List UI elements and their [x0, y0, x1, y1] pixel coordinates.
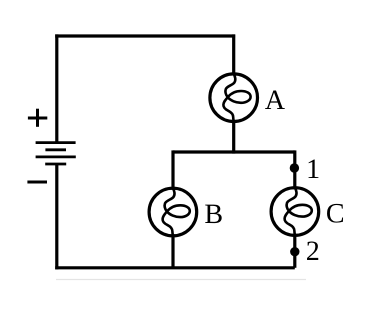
lamp C circle: [271, 188, 319, 236]
wire lamp C top lead: [293, 150, 296, 189]
lamp A filament: [223, 74, 250, 122]
battery B1 plate long top: [36, 141, 76, 144]
battery + label: [28, 109, 47, 127]
wire top horizontal: [55, 34, 235, 37]
lamp A label: [265, 91, 285, 109]
wire junction horizontal: [173, 150, 295, 153]
lamp C label: [327, 204, 343, 223]
node 2 label: [307, 241, 318, 260]
node 1 junction dot: [290, 163, 299, 172]
wire lamp C bottom lead: [293, 234, 296, 268]
faint rule artifact: [56, 279, 306, 281]
battery - label: [27, 181, 47, 184]
lamp B circle: [149, 188, 197, 236]
lamp C filament: [285, 188, 312, 236]
wire left vertical lower: [55, 164, 58, 269]
wire left vertical upper: [55, 34, 58, 142]
node 2 junction dot: [290, 247, 299, 256]
node 1 label: [309, 160, 319, 178]
wire bottom horizontal: [55, 266, 295, 269]
wire lamp A top lead: [232, 34, 235, 75]
wire lamp A bottom lead: [232, 120, 235, 154]
lamp A circle: [210, 74, 258, 122]
wire lamp B bottom lead: [171, 234, 174, 268]
battery B1 plate short bottom: [45, 163, 66, 166]
battery B1 plate short: [45, 148, 66, 151]
battery B1 plate long: [36, 155, 76, 158]
lamp B filament: [163, 188, 190, 236]
wire lamp B top lead: [171, 150, 174, 189]
lamp B label: [205, 205, 222, 223]
